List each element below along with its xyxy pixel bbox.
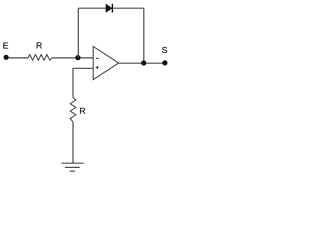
diode D1 (106, 4, 112, 13)
resistor R2 (70, 98, 76, 122)
wire E to R1 (9, 57, 29, 59)
wire feedback top right (112, 7, 143, 9)
node B (output/feedback junction) (141, 60, 146, 65)
wire R2 to ground (72, 122, 74, 163)
wire feedback top left (78, 7, 106, 9)
terminal S (162, 60, 167, 65)
ground (62, 163, 84, 171)
terminal E (4, 55, 9, 60)
wire feedback left vertical (77, 8, 79, 57)
op-amp U1 minus sign (inverting input) (96, 57, 99, 59)
label E (3, 43, 8, 49)
label S (162, 47, 167, 53)
wire op-amp output to S (119, 62, 165, 64)
resistor R1 (28, 55, 52, 61)
label R (R1) (37, 42, 42, 48)
label R (R2) (80, 108, 85, 114)
wire R1 to op-amp inverting input (52, 57, 93, 59)
wire non-inverting input to R2 (73, 68, 93, 97)
node A (input/feedback junction) (75, 55, 80, 60)
op-amp U1 plus sign (non-inverting input) (96, 66, 99, 69)
wire feedback right vertical (143, 8, 145, 63)
op-amp U1 (93, 46, 119, 79)
